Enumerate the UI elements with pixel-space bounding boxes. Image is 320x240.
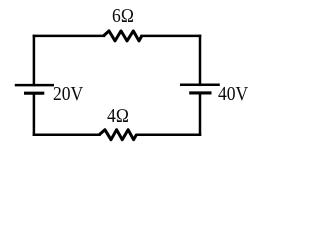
wire right upper (to 40V battery): [199, 36, 202, 85]
wire left upper: [33, 36, 36, 85]
wire bottom-left segment: [34, 133, 100, 136]
wire top-right segment: [142, 35, 201, 38]
wire bottom-right segment: [137, 133, 200, 136]
wire right lower: [199, 94, 202, 135]
wire left lower: [33, 94, 36, 135]
resistor 6ohm (top): [104, 31, 142, 41]
battery 40V short plate (-): [189, 91, 211, 94]
label 4 ohm: [107, 106, 129, 128]
battery 20V long plate (+): [15, 84, 54, 87]
label 6 ohm: [112, 6, 134, 28]
label 40V: [218, 84, 248, 106]
battery 20V short plate (-): [24, 92, 44, 95]
label 20V: [53, 84, 83, 106]
wire top-left segment: [34, 35, 104, 38]
battery 40V long plate (+): [180, 84, 220, 87]
resistor 4ohm (bottom): [99, 130, 136, 140]
